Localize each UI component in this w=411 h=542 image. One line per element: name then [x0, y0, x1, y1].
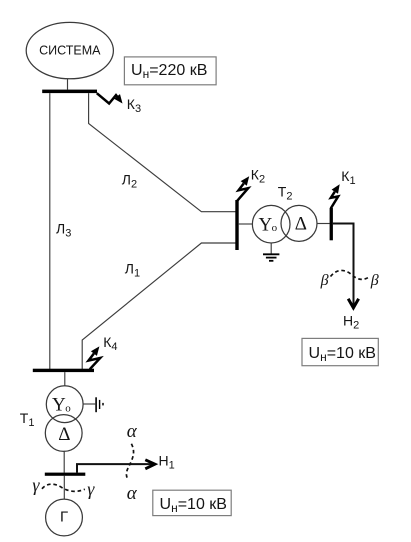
svg-text:Y: Y — [259, 215, 273, 236]
svg-text:o: o — [65, 402, 71, 414]
svg-text:Δ: Δ — [58, 424, 70, 445]
svg-text:СИСТЕМА: СИСТЕМА — [39, 44, 101, 58]
svg-text:β: β — [370, 272, 379, 289]
svg-text:γ: γ — [87, 479, 95, 499]
svg-text:α: α — [127, 421, 138, 442]
svg-text:Uн=10 кВ: Uн=10 кВ — [160, 496, 227, 515]
svg-text:Y: Y — [52, 395, 66, 416]
svg-text:Uн=10 кВ: Uн=10 кВ — [309, 345, 376, 364]
svg-text:Г: Г — [60, 508, 68, 525]
svg-text:Uн=220 кВ: Uн=220 кВ — [131, 62, 207, 81]
svg-text:Δ: Δ — [295, 213, 307, 234]
svg-text:o: o — [272, 222, 278, 234]
svg-text:α: α — [127, 483, 138, 504]
svg-text:γ: γ — [32, 475, 40, 495]
svg-text:β: β — [320, 272, 329, 289]
